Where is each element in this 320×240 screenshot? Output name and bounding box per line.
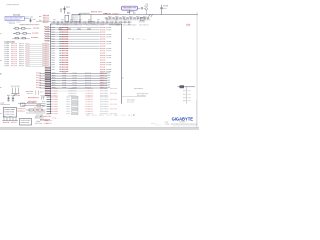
resistor network right of X1 xyxy=(26,108,46,115)
capacitor C6 with vertical lead xyxy=(63,6,70,13)
relay box (blue rounded) top middle xyxy=(122,6,138,10)
red labels bottom corner cluster xyxy=(45,118,57,123)
capacitor pair C20 C21 xyxy=(7,95,15,100)
revision marks title block xyxy=(151,122,168,124)
wire drop under relay box xyxy=(127,10,135,15)
text row y24.7 left xyxy=(20,24,40,26)
revision table bottom right of J1 xyxy=(178,85,196,103)
resistor R mark xyxy=(67,12,69,14)
J1 pin rows with net labels xyxy=(51,27,112,69)
series resistors row2 left xyxy=(13,33,39,35)
series resistors row1 left xyxy=(13,28,40,30)
red net label x105 under rail xyxy=(105,13,118,15)
wires bottom-left to connector xyxy=(0,102,45,105)
bridge row labels y71.5 xyxy=(60,70,112,72)
resistor pack cluster x26-44 y90-96 xyxy=(26,91,44,95)
net table header xyxy=(5,41,16,43)
net label red x88 y22 xyxy=(88,20,94,22)
page border right edge xyxy=(195,12,198,128)
connector J1 outline xyxy=(51,24,122,114)
connector J1 header text xyxy=(60,24,149,26)
ground symbols under C20 C21 xyxy=(7,100,14,103)
component micro-row on bus C xyxy=(106,16,151,20)
J1 bottom area rows xyxy=(52,89,118,96)
sheet title text top-left xyxy=(7,4,19,6)
diode D2 and resistor bits x36-45 xyxy=(37,105,45,122)
svg-text:GIGABYTE: GIGABYTE xyxy=(172,117,194,122)
termination resistor rows below J1 xyxy=(42,96,117,114)
J1 lower rows with long wires xyxy=(36,73,110,88)
red net labels bottom-left xyxy=(28,98,39,102)
label Q1 xyxy=(145,4,149,6)
gray notes near J1 bottom right xyxy=(127,88,148,102)
component box U2 small xyxy=(65,15,69,22)
labels right of X1 xyxy=(18,109,26,111)
diode network bottom-left xyxy=(35,117,50,123)
red net name top middle xyxy=(91,12,107,14)
ground cluster mid-left xyxy=(11,86,20,95)
label above blue box xyxy=(13,14,20,16)
decoupling capacitor row on bus A xyxy=(53,20,131,24)
faint note row y115 x85-134 xyxy=(86,114,135,116)
capacitor C near blue box xyxy=(24,17,35,23)
J1 left pin stubs band3 xyxy=(45,67,51,95)
text above power rail xyxy=(79,12,90,14)
wire from blue box area xyxy=(36,20,51,22)
J1 left pin stubs band1 xyxy=(44,27,50,41)
net name table rows xyxy=(5,44,30,66)
oscillator box X1 xyxy=(3,108,16,118)
component box at x140 under rail xyxy=(139,17,145,21)
wire bus A y22 horizontal xyxy=(51,21,132,23)
wire y96.6 under notes xyxy=(122,78,146,97)
component box U7 bottom-left xyxy=(20,119,32,126)
diode arrows right of X1 xyxy=(37,109,44,111)
capacitor C10 right top xyxy=(160,5,168,15)
capacitor at x141 xyxy=(141,7,142,9)
power rail y14.5 horizontal long xyxy=(78,14,198,16)
mosfet symbol slanted marks at x149 xyxy=(148,14,152,17)
extra net rows bottom xyxy=(40,116,52,119)
blue gate symbols on box top xyxy=(50,23,66,25)
text under blue box xyxy=(8,22,21,24)
cap pair near connector x41-45 y96-100 xyxy=(41,95,45,99)
component box U3 xyxy=(72,14,80,22)
GIGABYTE logo xyxy=(172,117,194,122)
capacitor C5 top area xyxy=(60,9,63,12)
address line title block xyxy=(167,123,197,125)
wires from table to connector xyxy=(26,43,51,66)
small box component x20-25 y103 xyxy=(21,103,26,106)
red rotated net label right edge xyxy=(186,24,190,25)
zone tick marks left border xyxy=(0,34,2,114)
component text marks first pin row xyxy=(59,28,91,30)
net labels right of blue box (red) xyxy=(39,15,49,22)
wire from relay box right xyxy=(138,7,141,9)
page bottom edge band xyxy=(0,127,199,130)
wire drop x91 xyxy=(90,15,92,25)
title block second text line xyxy=(155,124,196,127)
series resistors row3 left xyxy=(12,37,38,39)
transistor Q1 circle xyxy=(144,8,148,15)
test point TP faint mid-right of J1 interior xyxy=(128,38,146,40)
wire bus C y18 horizontal xyxy=(105,17,150,19)
trademark line under logo xyxy=(180,121,186,123)
capacitor row bottom-left corner xyxy=(2,117,18,123)
highlighted net box (blue) upper-left xyxy=(5,16,24,20)
